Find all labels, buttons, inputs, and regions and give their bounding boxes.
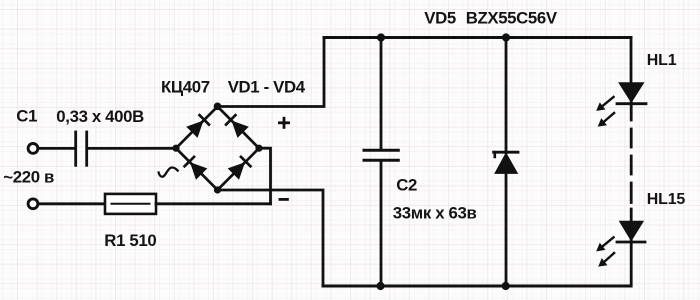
svg-text:C1: C1 xyxy=(16,106,37,125)
svg-text:HL1: HL1 xyxy=(647,52,677,69)
svg-text:КЦ407: КЦ407 xyxy=(161,78,210,97)
svg-text:~220 в: ~220 в xyxy=(3,167,54,186)
svg-text:VD1 - VD4: VD1 - VD4 xyxy=(228,78,306,97)
svg-text:0,33 x 400В: 0,33 x 400В xyxy=(56,107,144,126)
svg-text:HL15: HL15 xyxy=(647,191,686,208)
svg-text:C2: C2 xyxy=(396,176,417,195)
svg-text:BZX55C56V: BZX55C56V xyxy=(466,9,558,28)
svg-text:33мк x 63в: 33мк x 63в xyxy=(393,204,477,223)
svg-text:VD5: VD5 xyxy=(424,9,456,28)
svg-text:R1 510: R1 510 xyxy=(104,231,156,250)
